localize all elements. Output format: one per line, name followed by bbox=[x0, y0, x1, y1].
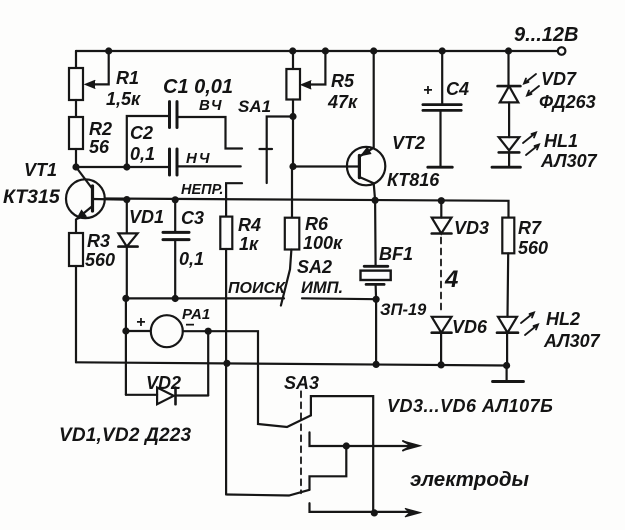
svg-text:560: 560 bbox=[518, 238, 548, 258]
svg-text:ИМП.: ИМП. bbox=[301, 279, 343, 297]
svg-text:1к: 1к bbox=[239, 234, 259, 254]
svg-text:КТ315: КТ315 bbox=[3, 186, 61, 208]
svg-text:SA1: SA1 bbox=[238, 97, 271, 116]
svg-text:VD7: VD7 bbox=[541, 69, 577, 89]
svg-text:SA2: SA2 bbox=[297, 257, 332, 277]
svg-text:R1: R1 bbox=[116, 68, 139, 88]
svg-text:100к: 100к bbox=[303, 233, 343, 253]
svg-text:ВЧ: ВЧ bbox=[199, 97, 222, 114]
svg-text:R2: R2 bbox=[89, 119, 112, 139]
svg-text:0,1: 0,1 bbox=[130, 144, 155, 164]
svg-text:+: + bbox=[423, 82, 432, 99]
svg-text:BF1: BF1 bbox=[379, 244, 413, 264]
svg-text:VD6: VD6 bbox=[452, 317, 488, 337]
svg-text:1,5к: 1,5к bbox=[106, 89, 141, 109]
svg-text:+: + bbox=[136, 314, 145, 331]
svg-text:электроды: электроды bbox=[410, 468, 530, 491]
svg-text:HL2: HL2 bbox=[546, 309, 580, 329]
svg-text:ПОИСК: ПОИСК bbox=[228, 280, 286, 297]
svg-text:R4: R4 bbox=[238, 215, 261, 235]
svg-text:VD3...VD6 АЛ107Б: VD3...VD6 АЛ107Б bbox=[387, 396, 553, 416]
svg-text:VD1: VD1 bbox=[129, 207, 164, 227]
svg-text:ЗП-19: ЗП-19 bbox=[380, 301, 427, 319]
svg-text:VD2: VD2 bbox=[146, 373, 181, 393]
svg-text:ФД263: ФД263 bbox=[539, 92, 596, 112]
svg-text:КТ816: КТ816 bbox=[387, 170, 440, 190]
svg-text:VT2: VT2 bbox=[392, 133, 425, 153]
svg-text:VT1: VT1 bbox=[24, 160, 57, 180]
svg-text:47к: 47к bbox=[327, 92, 358, 112]
svg-text:НЕПР.: НЕПР. bbox=[181, 182, 223, 198]
svg-text:4: 4 bbox=[444, 266, 458, 293]
svg-text:С1 0,01: С1 0,01 bbox=[163, 76, 233, 98]
svg-text:R7: R7 bbox=[518, 218, 542, 238]
svg-text:SA3: SA3 bbox=[284, 373, 319, 393]
svg-text:R6: R6 bbox=[305, 214, 329, 234]
svg-text:56: 56 bbox=[89, 137, 110, 157]
svg-text:VD3: VD3 bbox=[454, 218, 489, 238]
svg-text:АЛ307: АЛ307 bbox=[540, 151, 598, 171]
svg-text:С2: С2 bbox=[130, 123, 153, 143]
svg-text:С4: С4 bbox=[446, 79, 469, 99]
svg-text:С3: С3 bbox=[181, 208, 204, 228]
svg-text:R3: R3 bbox=[87, 231, 110, 251]
svg-text:HL1: HL1 bbox=[544, 131, 578, 151]
svg-text:560: 560 bbox=[85, 250, 115, 270]
svg-text:R5: R5 bbox=[331, 71, 355, 91]
svg-text:НЧ: НЧ bbox=[186, 150, 211, 167]
svg-text:VD1,VD2 Д223: VD1,VD2 Д223 bbox=[59, 425, 192, 446]
svg-text:−: − bbox=[185, 317, 194, 334]
svg-text:0,1: 0,1 bbox=[179, 249, 204, 269]
svg-text:9...12В: 9...12В bbox=[514, 24, 578, 46]
svg-text:АЛ307: АЛ307 bbox=[543, 331, 601, 351]
